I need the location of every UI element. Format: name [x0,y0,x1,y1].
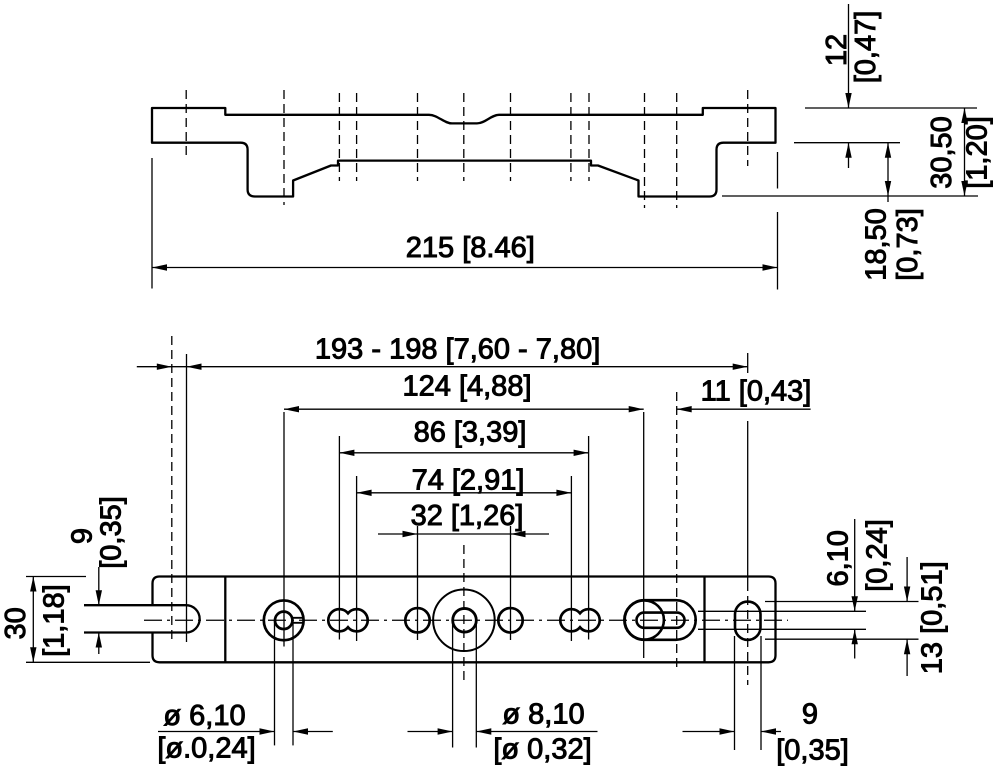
bar edge line right block [703,577,705,663]
ext 198 (dashed) [171,336,173,644]
big hole inner [453,608,477,632]
centerline hole32L [417,93,419,181]
dimension dia 6,10 [158,728,333,734]
centerline big hole (dashed) [463,545,465,683]
dimension 11 [677,406,811,412]
centerline fig8L-b [356,93,358,181]
ext fig8L-a [338,436,340,640]
svg-text:6,10: 6,10 [823,530,855,586]
svg-text:[0,35]: [0,35] [776,735,849,767]
dimension 215 [8.46] [152,152,778,290]
dimension 6,10 right [852,519,858,659]
svg-text:74 [2,91]: 74 [2,91] [412,465,525,497]
dimension 74 [357,490,572,496]
bar edge line left block [224,577,226,663]
open slot left [84,605,200,632]
bar outline [153,577,776,663]
ext 9-right left [734,636,736,750]
svg-text:ø 6,10: ø 6,10 [163,700,245,732]
keyway slit [292,618,304,623]
svg-text:124 [4,88]: 124 [4,88] [403,371,532,403]
svg-text:32 [1,26]: 32 [1,26] [411,500,524,532]
extension and centerlines bottom view [26,336,919,750]
ext 6,10 bottom [698,628,866,630]
ext fig8L-b [356,476,358,641]
ext 6,10 top [698,610,866,612]
dimension 86 [339,450,588,456]
svg-text:12: 12 [821,34,853,66]
svg-text:[ø.0,24]: [ø.0,24] [157,733,255,765]
ext dia6 left [274,621,276,745]
dimension 9 left [96,567,102,654]
keyhole inner slot [637,613,685,628]
ext 9-right right [760,636,762,750]
keyhole circle [625,600,664,639]
projection centerlines (dashed) [186,90,748,208]
svg-text:86 [3,39]: 86 [3,39] [414,417,527,449]
right oval [735,602,761,640]
ext dia8 right [475,620,477,747]
svg-text:ø 8,10: ø 8,10 [502,699,584,731]
dimension 193-198 [137,364,748,370]
centerline keyhole circle [644,93,646,208]
ext 13 bottom [765,638,919,640]
dimension 30 left [30,577,36,663]
svg-text:[0,24]: [0,24] [862,519,894,592]
svg-text:11 [0,43]: 11 [0,43] [701,376,812,408]
centerline big hole [463,93,465,181]
svg-text:13 [0,51]: 13 [0,51] [917,561,949,674]
ext hole32L [417,526,419,640]
ext counterbore center [283,412,285,647]
hole 32-left [405,608,429,632]
centerline fig8R-a [570,93,572,181]
dimension 18,50 [0,73] [885,143,891,202]
svg-text:[1,18]: [1,18] [39,584,71,657]
svg-text:18,50: 18,50 [861,208,893,281]
svg-text:[0,35]: [0,35] [96,496,128,569]
svg-text:30: 30 [0,607,32,639]
ext 193 slot center [186,354,188,642]
big hole outer [433,589,495,651]
counterbore inner circle [275,612,292,629]
dimension dia 8,10 [408,728,598,734]
figure-8 hole left [328,609,367,631]
centerline fig8L-a [338,93,340,181]
centerline right oval [747,90,749,166]
dimension 12 [0,47] [794,4,977,168]
centerline keyhole slot end (dashed) [676,392,678,672]
svg-text:30,50: 30,50 [926,116,958,189]
dimension 124 [284,406,644,412]
svg-text:[ø 0,32]: [ø 0,32] [493,734,591,766]
hole 32-right [498,608,522,632]
ext 30 bottom [26,661,150,663]
centerline keyhole slot end [676,93,678,208]
svg-text:9: 9 [67,528,99,544]
centerline slot [185,90,187,157]
ext right oval center [747,353,749,373]
counterbore outer circle [264,600,304,640]
centerline counterbore [283,90,285,205]
svg-text:9: 9 [802,699,818,731]
dimension 32 [378,531,549,537]
ext hole32R [510,526,512,640]
svg-text:193 - 198 [7,60 - 7,80]: 193 - 198 [7,60 - 7,80] [315,334,600,366]
centerline right oval (dashed) [747,582,749,685]
svg-text:[0,47]: [0,47] [850,11,882,84]
ext dia6 right [292,621,294,745]
dimension 13 right [904,557,910,676]
dimension 9 bottom right [683,728,782,734]
ext fig8R-b [588,436,590,640]
ext 30 top [26,576,86,578]
svg-text:[0,73]: [0,73] [892,208,924,281]
dimension 30,50 [1,20] [722,108,978,196]
profile outline [152,108,776,197]
svg-text:[1,20]: [1,20] [962,116,994,189]
ext fig8R-a [570,476,572,641]
ext dia8 left [452,620,454,747]
figure-8 hole right [560,609,599,631]
ext keyhole center [643,412,645,658]
centerline hole32R [510,93,512,181]
ext 13 top [765,601,919,603]
keyhole outer stadium [624,600,695,640]
centerline fig8R-b [588,93,590,181]
horizontal centerline [144,619,788,621]
svg-text:215 [8.46]: 215 [8.46] [406,232,535,264]
